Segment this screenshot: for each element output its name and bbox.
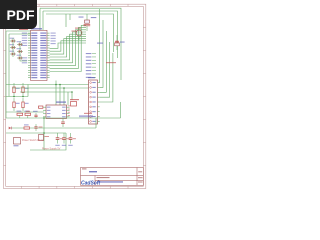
- svg-text:CadSoft: CadSoft: [81, 181, 101, 187]
- svg-text:Power Supply 5V: Power Supply 5V: [42, 148, 61, 151]
- svg-text:Power Switch DC In: Power Switch DC In: [22, 139, 44, 142]
